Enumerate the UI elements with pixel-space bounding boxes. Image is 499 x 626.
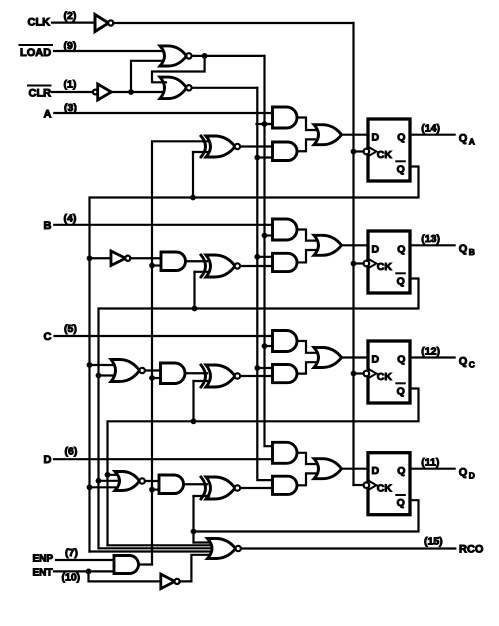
svg-text:Q: Q	[397, 353, 405, 365]
svg-text:Q: Q	[397, 275, 405, 287]
svg-text:C: C	[469, 359, 475, 369]
svg-text:A: A	[469, 137, 475, 147]
svg-text:CK: CK	[377, 371, 393, 383]
svg-text:D: D	[372, 465, 380, 477]
svg-text:(14): (14)	[421, 123, 440, 135]
svg-text:(12): (12)	[421, 345, 440, 357]
svg-text:B: B	[44, 220, 52, 232]
svg-text:ENT: ENT	[33, 567, 53, 578]
svg-text:(10): (10)	[62, 572, 81, 584]
svg-text:Q: Q	[397, 465, 405, 477]
svg-text:Q: Q	[459, 467, 468, 479]
svg-text:(15): (15)	[424, 535, 443, 547]
svg-text:D: D	[372, 353, 380, 365]
svg-text:LOAD: LOAD	[20, 47, 51, 59]
svg-text:ENP: ENP	[33, 554, 54, 565]
svg-text:Q: Q	[397, 385, 405, 397]
svg-text:C: C	[44, 331, 52, 343]
svg-text:Q: Q	[397, 497, 405, 509]
svg-text:(6): (6)	[65, 446, 78, 458]
svg-text:Q: Q	[459, 355, 468, 367]
svg-text:A: A	[44, 109, 52, 121]
svg-text:(2): (2)	[64, 10, 77, 22]
svg-text:CLK: CLK	[28, 16, 51, 28]
svg-text:B: B	[469, 247, 475, 257]
svg-text:CK: CK	[377, 261, 393, 273]
svg-text:Q: Q	[459, 133, 468, 145]
svg-text:(7): (7)	[65, 547, 78, 559]
svg-text:Q: Q	[397, 163, 405, 175]
svg-text:(13): (13)	[421, 233, 440, 245]
svg-text:(1): (1)	[64, 79, 77, 91]
svg-text:(4): (4)	[64, 213, 77, 225]
svg-text:D: D	[372, 131, 380, 143]
svg-text:Q: Q	[397, 131, 405, 143]
svg-text:CK: CK	[377, 483, 393, 495]
svg-text:Q: Q	[459, 243, 468, 255]
svg-text:RCO: RCO	[459, 543, 484, 555]
svg-text:Q: Q	[397, 243, 405, 255]
svg-text:(3): (3)	[64, 102, 77, 114]
svg-text:D: D	[469, 471, 475, 481]
svg-text:D: D	[44, 454, 52, 466]
svg-text:D: D	[372, 243, 380, 255]
svg-text:CLR: CLR	[29, 87, 52, 99]
svg-text:CK: CK	[377, 149, 393, 161]
svg-text:(5): (5)	[64, 323, 77, 335]
svg-text:(11): (11)	[421, 457, 439, 469]
